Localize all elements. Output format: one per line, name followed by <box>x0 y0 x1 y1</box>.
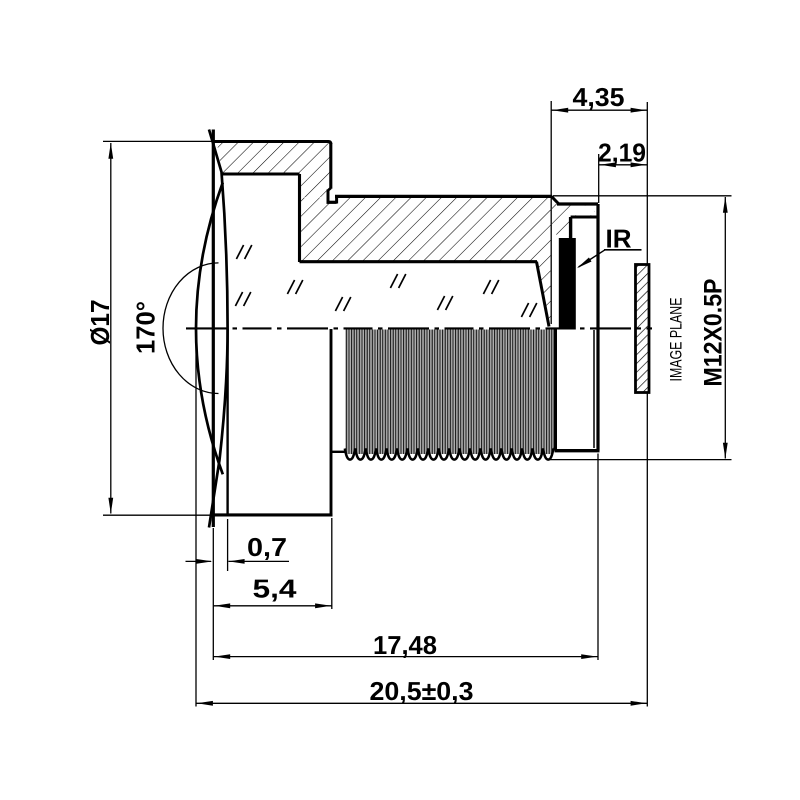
rear cap top edge <box>557 202 598 205</box>
17.48 extension right <box>597 454 599 661</box>
0.7 extension <box>227 519 229 571</box>
glass mark 7 <box>483 280 498 294</box>
17.48 extension left <box>212 528 214 660</box>
rear cap bottom edge <box>555 449 600 452</box>
rear cap face <box>596 204 599 451</box>
thread runout shoulder <box>332 451 346 453</box>
svg-text:2,19: 2,19 <box>598 137 646 167</box>
groove bottom <box>327 201 337 204</box>
lens rim line <box>212 130 215 528</box>
bore cone <box>537 262 550 327</box>
IR filter <box>559 238 576 330</box>
170 deg arc <box>163 263 218 394</box>
glass mark 2 <box>235 292 250 306</box>
bore bottom edge <box>300 260 538 263</box>
thread relief groove (white) <box>329 196 337 202</box>
glass mark 5 <box>390 274 405 288</box>
20.5 extension right <box>646 393 648 707</box>
rear cap notch (white) <box>572 206 595 216</box>
M12 top extension <box>553 195 732 197</box>
barrel bottom edge <box>213 513 333 516</box>
17.48 dimension line <box>213 656 598 658</box>
svg-text:17,48: 17,48 <box>373 630 437 660</box>
bore step face <box>298 174 301 262</box>
M12 bottom extension <box>548 459 732 461</box>
image plane bar <box>636 265 650 393</box>
flange rear chamfer <box>552 196 559 204</box>
2.19 extension left <box>598 154 600 203</box>
svg-text:Ø17: Ø17 <box>85 300 115 346</box>
front cell right face <box>330 329 333 514</box>
hatched wall: front cap right block <box>301 173 329 197</box>
2.19 dimension line <box>599 164 647 166</box>
lens rear surface <box>209 130 228 528</box>
glass mark 4 <box>335 297 350 311</box>
4.35 dimension line <box>551 109 647 111</box>
0.7 dimension line right part <box>228 560 289 562</box>
threads texture <box>345 330 553 455</box>
front cap right face upper <box>329 143 332 189</box>
thread crest wave <box>345 449 554 460</box>
hatched wall: flange band <box>301 198 551 326</box>
5.4 dimension line <box>213 605 331 607</box>
glass mark 3 <box>287 280 302 294</box>
20.5 extension left <box>195 329 197 707</box>
front cell left face <box>226 329 228 514</box>
M12 dimension line <box>724 197 726 459</box>
svg-text:M12X0.5P: M12X0.5P <box>700 279 728 387</box>
retainer stem <box>569 217 572 239</box>
thread right end tick <box>553 448 556 450</box>
20.5 dimension line <box>196 702 647 704</box>
flange top edge <box>335 195 552 198</box>
cap inner line below axis <box>593 330 595 448</box>
hatched wall: front cap top band <box>217 143 330 173</box>
bore step top <box>221 172 300 175</box>
0.7 dimension line left part <box>186 560 212 562</box>
thread rear edge <box>554 329 557 451</box>
svg-text:0,7: 0,7 <box>247 532 287 562</box>
svg-text:IMAGE PLANE: IMAGE PLANE <box>667 298 686 382</box>
dia17 bottom extension line <box>103 514 213 516</box>
retainer hook bottom <box>571 216 598 219</box>
5.4 extension right <box>331 518 333 609</box>
svg-text:170°: 170° <box>131 301 161 354</box>
svg-text:5,4: 5,4 <box>252 573 297 603</box>
glass mark 6 <box>437 296 452 310</box>
flange rear face line <box>550 101 552 324</box>
groove chamfer <box>328 188 331 191</box>
groove right wall <box>335 196 338 204</box>
dia17 dimension line <box>110 143 112 514</box>
IR underline <box>604 249 642 251</box>
glass mark 1 <box>236 245 251 259</box>
centerline (optical axis) <box>186 327 652 329</box>
dia17 top extension line <box>103 140 213 142</box>
4.35 extension right <box>646 102 648 264</box>
glass mark 8 <box>521 303 536 317</box>
hatched wall: rear cap sliver <box>552 204 595 237</box>
groove left wall <box>327 190 330 202</box>
IR leader <box>579 250 606 267</box>
lens front surface <box>196 183 223 475</box>
barrel top edge <box>213 142 331 145</box>
svg-text:4,35: 4,35 <box>572 82 624 112</box>
svg-text:20,5±0,3: 20,5±0,3 <box>369 676 473 706</box>
